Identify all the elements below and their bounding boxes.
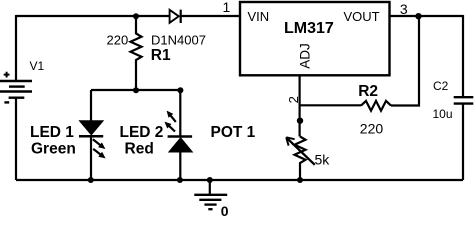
wire: LED2 anode to bottom rail: [179, 152, 181, 180]
svg-text:Green: Green: [31, 140, 76, 157]
resistor R1: [131, 16, 142, 90]
label LED 2: [120, 124, 164, 141]
wire left: top corner down to battery: [15, 15, 17, 80]
regulator LM317 body: [240, 2, 390, 75]
svg-text:10u: 10u: [433, 107, 453, 121]
part label D1N4007: [151, 33, 206, 48]
value label 220 (R2): [360, 121, 384, 137]
svg-text:C2: C2: [433, 79, 449, 93]
junction dot LED1 bottom: [88, 177, 94, 183]
svg-text:ADJ: ADJ: [298, 43, 313, 69]
svg-text:0: 0: [221, 203, 229, 219]
svg-text:VIN: VIN: [248, 9, 270, 24]
battery minus mark: [4, 101, 9, 103]
svg-text:V1: V1: [30, 59, 45, 73]
ref label C2: [433, 79, 449, 93]
resistor R2: [361, 101, 391, 111]
junction dot at node 3: [415, 13, 421, 19]
wire: R2 right up to node 3: [391, 16, 419, 106]
wire: diode cathode to VIN pin 1: [181, 15, 240, 17]
wire top left: battery + to diode anode: [16, 15, 169, 17]
capacitor C2: [454, 97, 474, 103]
svg-text:220: 220: [360, 121, 384, 137]
node 1 label: [223, 0, 231, 15]
junction dot ground tap: [207, 177, 213, 183]
LED LED2 (reversed): [168, 137, 193, 152]
svg-text:220: 220: [107, 33, 129, 48]
wire: VOUT to top right corner: [390, 15, 464, 17]
wire: node 2 to R2: [300, 104, 361, 106]
svg-text:LED 1: LED 1: [30, 124, 74, 141]
label LED 1: [30, 124, 74, 141]
svg-text:R1: R1: [151, 47, 171, 64]
junction dot LED2 bottom: [177, 177, 183, 183]
svg-text:5k: 5k: [315, 151, 331, 167]
node 0 label: [221, 203, 229, 219]
ground symbol: [194, 180, 227, 209]
wire: C2 down to bottom rail: [462, 104, 464, 180]
pin label ADJ (rotated): [298, 43, 313, 69]
svg-text:POT 1: POT 1: [211, 124, 256, 141]
junction dot pot bottom: [297, 177, 303, 183]
node 3 label: [400, 1, 408, 17]
svg-text:D1N4007: D1N4007: [151, 33, 206, 48]
wire: bottom rail: [16, 179, 463, 181]
svg-text:R2: R2: [358, 83, 378, 100]
ref label V1: [30, 59, 45, 73]
label POT 1: [211, 124, 256, 141]
LED1 emission arrows: [93, 139, 106, 158]
LED2 emission arrows: [164, 111, 175, 132]
wire: top right corner down to C2: [462, 15, 464, 97]
wire: LED branch rail: [91, 89, 180, 91]
battery plus mark: [4, 72, 10, 78]
svg-text:VOUT: VOUT: [344, 9, 380, 24]
potentiometer POT1 5k: [286, 137, 315, 181]
svg-text:Red: Red: [125, 140, 154, 157]
wire: battery - down to bottom rail: [15, 98, 17, 180]
svg-text:LM317: LM317: [284, 20, 334, 37]
pin label VIN: [248, 9, 270, 24]
value label 220 (R1): [107, 33, 129, 48]
node junction dot at R1 tap on top wire: [133, 13, 139, 19]
node 2 label (rotated): [286, 96, 301, 103]
wire: LED1 cathode to bottom rail: [90, 136, 92, 180]
ref label R2: [358, 83, 378, 100]
junction dot at R1 bottom: [133, 87, 139, 93]
battery V1: [0, 81, 32, 98]
ref label R1: [151, 47, 171, 64]
pin label VOUT: [344, 9, 380, 24]
part label LM317: [284, 20, 334, 37]
value label 10u: [433, 107, 453, 121]
label Red: [125, 140, 154, 157]
junction dot at LED2 corner: [177, 87, 183, 93]
junction dot on ADJ wire: [297, 118, 303, 124]
svg-text:3: 3: [400, 1, 408, 17]
value label 5k: [315, 151, 331, 167]
LED LED1: [79, 121, 103, 136]
svg-text:LED 2: LED 2: [120, 124, 164, 141]
svg-text:2: 2: [286, 96, 301, 103]
wire: rail down to LED2 cathode: [179, 90, 181, 136]
svg-text:1: 1: [223, 0, 231, 15]
diode D1N4007: [170, 10, 181, 23]
label Green: [31, 140, 76, 157]
wire: ADJ pin down to potentiometer: [299, 75, 301, 136]
wire: rail down to LED1 anode: [90, 90, 92, 122]
